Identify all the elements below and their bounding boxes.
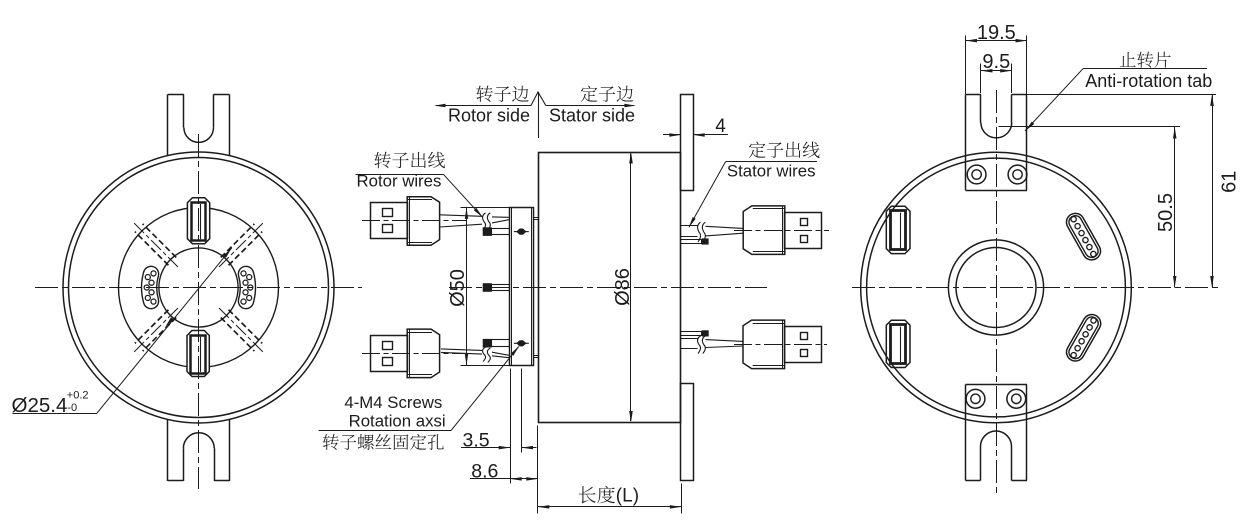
dim 3.5 [510, 369, 512, 484]
dim length label 长度 [579, 486, 615, 504]
right view: dim 50.5 [999, 126, 1181, 128]
left view: top USB connector [187, 198, 209, 244]
middle view: label 转子边 [476, 85, 528, 102]
middle view: label 转子出线 [374, 152, 445, 169]
middle view: rotor bottom USB plug [371, 336, 408, 372]
right view: top anti-rotation tab [965, 94, 967, 190]
right view: bore circles [948, 240, 1043, 335]
right view: center lines [852, 287, 1219, 289]
middle view: label 定子边 [581, 86, 634, 102]
svg-text:50.5: 50.5 [1155, 193, 1177, 232]
middle view: stator bottom pin [681, 332, 702, 336]
middle view: flange screws (M4) [514, 229, 529, 235]
right view: lower-right pin connector [1063, 311, 1104, 364]
svg-text:Anti-rotation tab: Anti-rotation tab [1085, 71, 1212, 91]
middle view: horizontal center line [449, 287, 767, 289]
right view: tab leader [1025, 69, 1083, 131]
label 止转片 [1120, 52, 1171, 68]
left view: top anti-rotation tab [167, 94, 169, 155]
left view: right pin cluster [238, 266, 255, 308]
svg-text:Ø50: Ø50 [447, 269, 469, 307]
left view: Ø25.4 leader line [97, 248, 232, 414]
right view: dim 9.5 [980, 64, 982, 94]
dim Ø50 [466, 207, 468, 365]
middle view: stator top wires [681, 225, 698, 227]
svg-text:9.5: 9.5 [982, 51, 1010, 73]
svg-text:3.5: 3.5 [463, 429, 490, 451]
svg-text:4: 4 [715, 116, 726, 137]
middle view: stator body rectangle [539, 153, 681, 423]
left view: bottom anti-rotation tab [167, 420, 169, 482]
svg-text:Stator side: Stator side [549, 106, 635, 126]
svg-text:4-M4 Screws: 4-M4 Screws [344, 393, 442, 412]
middle view: bottom stator tab plate [681, 384, 694, 481]
middle view: stator top pin [681, 240, 702, 244]
middle view: stator bottom wires [681, 348, 698, 350]
svg-text:Rotor side: Rotor side [448, 106, 530, 126]
middle view: rotor/stator divider symbol [538, 92, 540, 138]
dim 4 (tab thickness) [663, 134, 681, 136]
middle view: label 转子螺丝固定孔 [323, 434, 444, 450]
svg-text:Ø86: Ø86 [612, 268, 634, 306]
left view: left pin cluster [142, 266, 159, 308]
right view: top tab screws [967, 165, 986, 184]
left view: Ø25.4 label underline [13, 413, 97, 415]
right view: lower-left USB socket [886, 320, 910, 367]
svg-text:Stator wires: Stator wires [727, 162, 816, 181]
left view: diagonal hidden slots (4x) [219, 223, 263, 267]
right view: outer housing circle (double) [861, 152, 1132, 423]
left view: bore circle Ø25.4 [159, 248, 238, 327]
middle view: label 定子出线 [749, 142, 820, 158]
svg-text:8.6: 8.6 [471, 461, 498, 483]
middle view: top stator tab plate [681, 95, 694, 191]
middle view: flange-body step lines [533, 217, 538, 219]
svg-text:+0.2: +0.2 [67, 390, 89, 402]
middle view: stator top USB plug [785, 213, 822, 249]
right view: bottom anti-rotation tab [965, 385, 967, 481]
dim Ø86 [630, 154, 632, 422]
right view: dim 19.5 [965, 36, 967, 95]
dim 8.6 [537, 426, 539, 514]
left view: center lines [35, 287, 362, 289]
middle view: rotor pins on flange [492, 229, 510, 235]
middle view: rotor top wires [440, 215, 482, 217]
right view: upper-left USB socket [886, 206, 910, 253]
svg-text:19.5: 19.5 [977, 22, 1016, 44]
left view: rotor ring circle [119, 208, 279, 368]
middle view: rotor top USB plug [371, 203, 408, 239]
middle view: stator bottom USB plug [785, 327, 822, 363]
middle view: stator side arrow [546, 105, 634, 107]
middle view: rotor side arrow [436, 105, 531, 107]
svg-text:Rotation axsi: Rotation axsi [349, 412, 446, 431]
middle view: rotor bottom wires [441, 349, 482, 351]
left view: outer housing circle (double) [63, 152, 334, 423]
left view: bottom USB connector [187, 331, 209, 377]
dim 长度(L) [681, 484, 683, 514]
middle view: rotor flange plate [510, 208, 534, 366]
right view: upper-right pin connector [1063, 210, 1104, 263]
middle view: right connector center lines [734, 230, 829, 232]
right view: bottom tab screws [966, 389, 985, 408]
svg-text:(L): (L) [616, 486, 639, 507]
right view: dim 61 [1012, 94, 1216, 96]
svg-text:Rotor wires: Rotor wires [357, 171, 442, 190]
svg-text:-0: -0 [67, 402, 77, 414]
svg-text:61: 61 [1218, 171, 1240, 193]
middle view: left connector center lines [362, 220, 466, 222]
svg-text:Ø25.4: Ø25.4 [12, 394, 68, 417]
